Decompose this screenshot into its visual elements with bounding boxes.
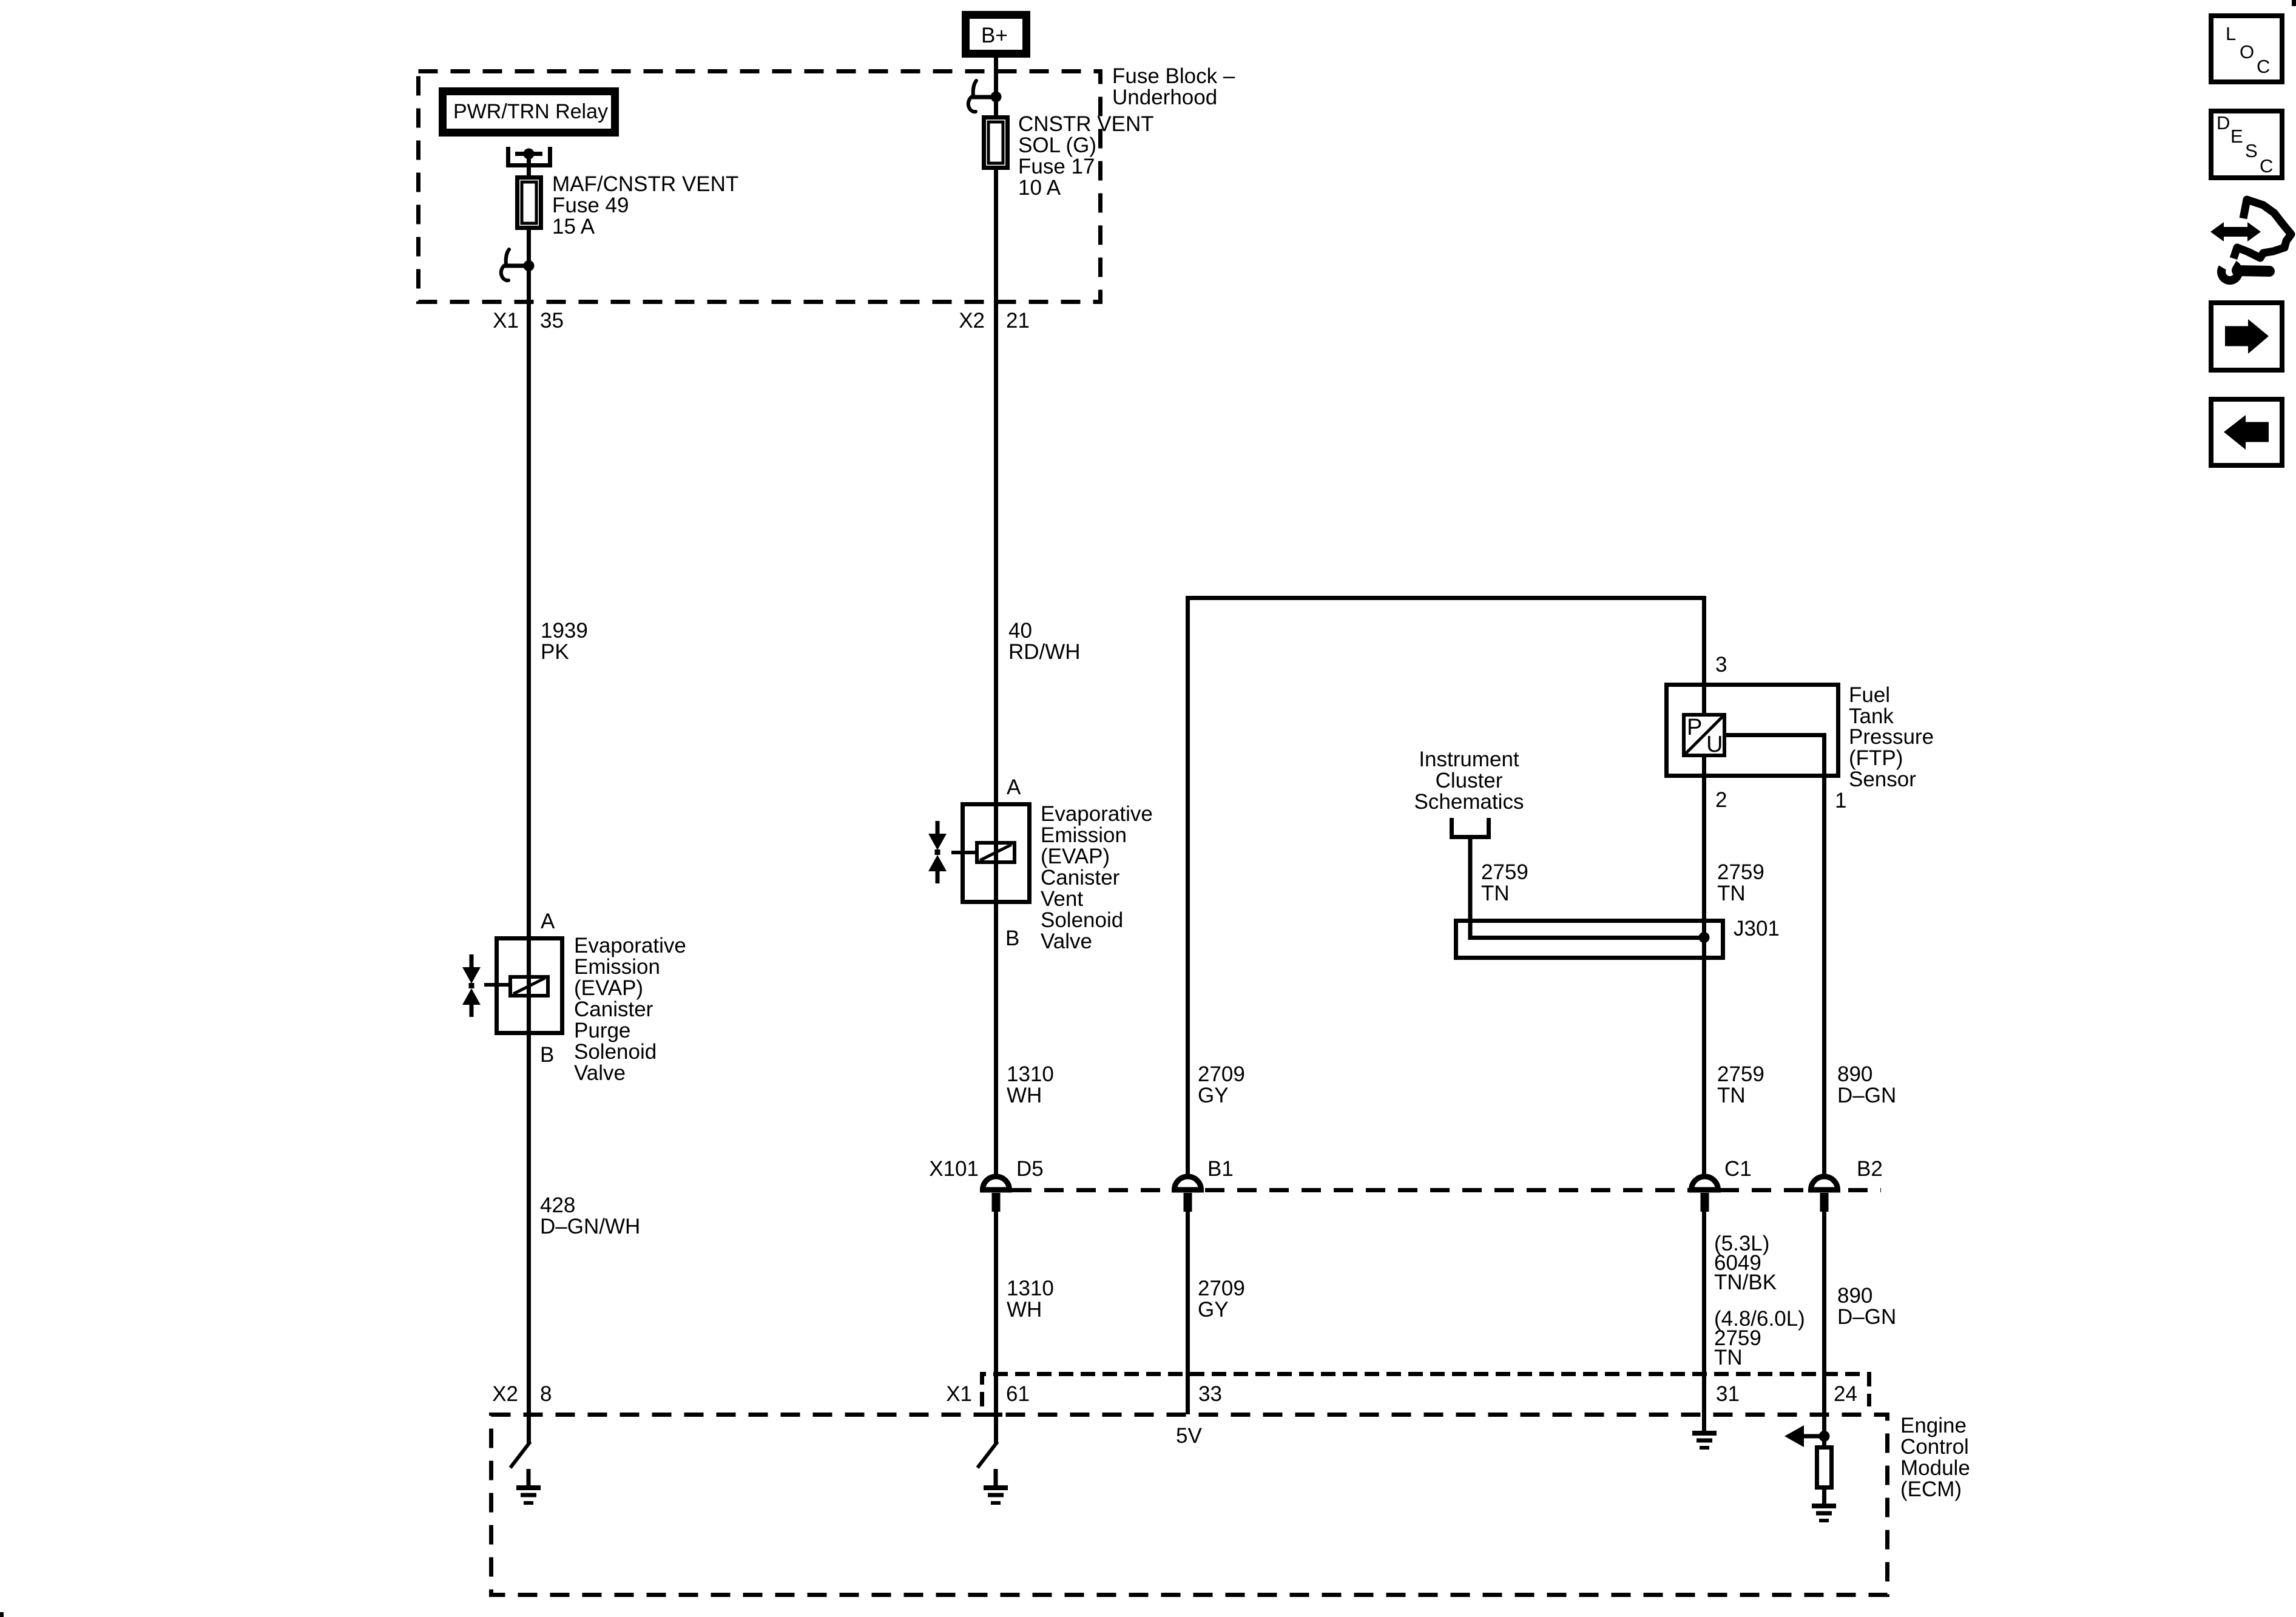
wire 1939 PK (X1-35 to purge solenoid A): [527, 266, 531, 1035]
wire B+ to relay contact (fuse 17 branch): [994, 53, 998, 97]
svg-text:33: 33: [1198, 1382, 1222, 1406]
icon arrow left: [2211, 399, 2282, 465]
wire 428 D-GN/WH: [527, 1033, 531, 1443]
svg-text:(FTP): (FTP): [1849, 746, 1903, 770]
svg-text:U: U: [1706, 732, 1723, 757]
signal arrow (pin 24): [1784, 1425, 1822, 1447]
wire label 890 D-GN (lower): [1837, 1284, 1896, 1329]
solenoid: EVAP canister purge valve: [484, 939, 562, 1033]
connector X1 dotted line (ECM header): [982, 1374, 1869, 1407]
icon LOC: [2211, 16, 2282, 82]
svg-text:B: B: [1005, 927, 1019, 950]
wire label 890 D-GN (upper): [1837, 1062, 1896, 1107]
svg-text:TN/BK: TN/BK: [1714, 1271, 1777, 1294]
svg-text:1: 1: [1835, 789, 1846, 812]
wire 1310 WH upper: [994, 900, 998, 1177]
svg-text:35: 35: [540, 309, 564, 333]
wire 890 D-GN (B2 to ECM 24): [1822, 1212, 1826, 1447]
ECM dashed box: [491, 1415, 1888, 1595]
label: Fuse Block - Underhood: [1112, 64, 1235, 109]
wire label 2709 GY upper: [1198, 1062, 1245, 1107]
valve symbol (purge): [462, 954, 481, 1017]
svg-text:X1: X1: [946, 1382, 972, 1406]
svg-text:Solenoid: Solenoid: [1041, 908, 1123, 932]
wire label (4.8/6.0L) 2759 TN: [1714, 1307, 1805, 1369]
svg-text:Purge: Purge: [574, 1019, 630, 1042]
svg-text:Pressure: Pressure: [1849, 725, 1934, 749]
svg-text:Sensor: Sensor: [1849, 768, 1916, 791]
svg-text:A: A: [1007, 775, 1021, 799]
junction dot J301: [1699, 932, 1710, 943]
connector X101 dashed line: [980, 1188, 1881, 1192]
svg-text:Canister: Canister: [1041, 866, 1120, 890]
svg-text:WH: WH: [1007, 1298, 1042, 1322]
svg-text:Engine: Engine: [1900, 1414, 1967, 1437]
svg-text:428: 428: [540, 1193, 575, 1217]
connector bump B1: [1175, 1157, 1234, 1212]
svg-text:1310: 1310: [1007, 1277, 1054, 1300]
ECM switch (pin 8): [510, 1442, 530, 1468]
connector bump D5: [983, 1157, 1044, 1212]
svg-text:GY: GY: [1198, 1084, 1229, 1107]
label vent solenoid: [1041, 802, 1153, 953]
svg-text:Fuse Block –: Fuse Block –: [1112, 64, 1235, 88]
svg-text:2: 2: [1715, 788, 1727, 812]
svg-text:Emission: Emission: [1041, 823, 1127, 847]
svg-text:Vent: Vent: [1041, 887, 1083, 911]
wire label 2759 TN (cluster): [1481, 860, 1528, 905]
svg-text:24: 24: [1834, 1382, 1857, 1406]
svg-text:2759: 2759: [1717, 860, 1764, 884]
svg-text:(ECM): (ECM): [1900, 1477, 1962, 1501]
wire 1310 WH lower: [994, 1212, 998, 1443]
svg-text:P: P: [1687, 715, 1702, 740]
relay contact bracket (fuse 49 feed): [508, 147, 550, 166]
wire label 2759 TN (right): [1717, 860, 1764, 905]
connector bump C1: [1692, 1157, 1752, 1212]
svg-text:D–GN: D–GN: [1837, 1084, 1896, 1107]
svg-text:TN: TN: [1717, 1084, 1746, 1107]
junction dot relay output: [524, 149, 535, 160]
svg-text:890: 890: [1837, 1062, 1872, 1086]
svg-text:D–GN/WH: D–GN/WH: [540, 1215, 640, 1238]
svg-text:Schematics: Schematics: [1414, 790, 1524, 814]
wire 2759 TN (FTP pin 2 to C1): [1702, 755, 1706, 1177]
svg-text:Cluster: Cluster: [1436, 769, 1503, 792]
svg-text:C: C: [2257, 56, 2270, 77]
junction dot pin 24: [1819, 1431, 1830, 1442]
fuse F49: [518, 178, 541, 228]
svg-text:MAF/CNSTR VENT: MAF/CNSTR VENT: [552, 172, 738, 196]
svg-text:PWR/TRN Relay: PWR/TRN Relay: [453, 100, 608, 123]
switch hook (fuse 17 feed): [968, 81, 976, 112]
svg-text:L: L: [2226, 23, 2236, 44]
label fuse 17: [1018, 112, 1154, 200]
svg-text:31: 31: [1716, 1382, 1740, 1406]
relay PWR/TRN Relay box: [443, 92, 615, 133]
svg-text:WH: WH: [1007, 1084, 1042, 1107]
wire label 2759 TN (upper): [1717, 1062, 1764, 1107]
ECM boundary tick at pin 61: [983, 1413, 1002, 1417]
switch hook (fuse 49 output): [501, 249, 509, 280]
svg-text:2759: 2759: [1717, 1062, 1764, 1086]
ground ECM pin 61: [984, 1469, 1008, 1503]
junction dot fuse 17 feed: [991, 92, 1002, 103]
wire label 1939 PK: [541, 619, 588, 664]
wire label 1310 WH lower: [1007, 1277, 1054, 1322]
svg-text:E: E: [2230, 126, 2243, 147]
svg-text:TN: TN: [1714, 1346, 1743, 1369]
wire label 1310 WH upper: [1007, 1062, 1054, 1107]
svg-text:Valve: Valve: [574, 1061, 626, 1085]
connector bump B2: [1811, 1157, 1883, 1212]
svg-text:X2: X2: [959, 309, 985, 333]
corner speck bottom-left: [0, 1612, 4, 1617]
label fuse 49: [552, 172, 738, 238]
svg-text:SOL (G): SOL (G): [1018, 133, 1096, 157]
svg-text:D5: D5: [1016, 1157, 1044, 1181]
svg-text:8: 8: [540, 1382, 552, 1406]
wire instrument cluster to J301: [1470, 839, 1704, 938]
label FTP sensor: [1849, 683, 1934, 791]
icon DESC: [2211, 111, 2282, 178]
svg-text:TN: TN: [1481, 882, 1510, 905]
svg-text:1310: 1310: [1007, 1062, 1054, 1086]
svg-text:2709: 2709: [1198, 1277, 1245, 1300]
power terminal B+: [966, 15, 1027, 54]
wire 2709 GY riser to FTP pin 3: [1188, 598, 1704, 1178]
svg-text:2759: 2759: [1481, 860, 1528, 884]
svg-text:Fuel: Fuel: [1849, 683, 1890, 707]
svg-text:Solenoid: Solenoid: [574, 1040, 657, 1064]
splice J301: [1456, 917, 1780, 958]
switch tick (fuse 17): [972, 95, 996, 100]
fuse F17: [984, 118, 1008, 168]
svg-text:Fuse 17: Fuse 17: [1018, 155, 1095, 178]
solenoid: EVAP canister vent valve: [951, 805, 1030, 902]
svg-text:3: 3: [1715, 653, 1727, 677]
svg-text:Module: Module: [1900, 1456, 1970, 1480]
svg-text:X1: X1: [493, 309, 519, 333]
fuse block underhood dashed box: [419, 72, 1101, 302]
valve symbol (vent): [928, 821, 947, 883]
svg-text:Canister: Canister: [574, 998, 653, 1021]
svg-text:Emission: Emission: [574, 955, 660, 979]
svg-text:B2: B2: [1857, 1157, 1883, 1181]
ECM switch (pin 61): [977, 1442, 998, 1468]
svg-text:40: 40: [1008, 619, 1032, 643]
svg-text:21: 21: [1006, 309, 1030, 333]
svg-text:B: B: [540, 1043, 554, 1067]
svg-text:10 A: 10 A: [1018, 176, 1061, 200]
svg-text:Valve: Valve: [1041, 930, 1092, 953]
label ECM: [1900, 1414, 1970, 1501]
wire 40 RD/WH (fuse 17 to vent solenoid A): [994, 167, 998, 904]
svg-text:O: O: [2240, 41, 2254, 62]
ground ECM pin 31: [1692, 1433, 1717, 1448]
svg-text:Evaporative: Evaporative: [574, 934, 686, 957]
svg-text:CNSTR VENT: CNSTR VENT: [1018, 112, 1154, 136]
switch tick: [505, 264, 528, 268]
svg-text:S: S: [2245, 140, 2258, 161]
corner speck top-right: [2292, 0, 2296, 6]
svg-text:Underhood: Underhood: [1112, 86, 1217, 109]
ground ECM pin 24: [1812, 1487, 1836, 1521]
svg-text:C: C: [2260, 155, 2273, 177]
svg-text:TN: TN: [1717, 882, 1746, 905]
svg-text:1939: 1939: [541, 619, 588, 643]
wire label 40 RD/WH: [1008, 619, 1081, 664]
wire fuse 49 to switch: [527, 228, 531, 266]
svg-text:X101: X101: [929, 1157, 979, 1181]
wire 6049/2759 (C1 to ECM 31): [1702, 1212, 1706, 1433]
svg-text:(EVAP): (EVAP): [574, 976, 643, 1000]
svg-text:Evaporative: Evaporative: [1041, 802, 1153, 826]
svg-text:X2: X2: [492, 1382, 518, 1406]
wire 890 D-GN (FTP pin 1 to B2): [1724, 735, 1825, 1178]
svg-text:2709: 2709: [1198, 1062, 1245, 1086]
svg-text:C1: C1: [1724, 1157, 1752, 1181]
svg-text:D–GN: D–GN: [1837, 1305, 1896, 1329]
icon diagnostic (arrow, outline, wrench): [2210, 200, 2291, 280]
svg-text:D: D: [2217, 112, 2230, 133]
junction dot switch: [524, 260, 535, 271]
svg-text:5V: 5V: [1176, 1424, 1202, 1448]
instrument cluster off-page reference: [1414, 748, 1524, 837]
sensor FTP box: [1667, 685, 1838, 776]
svg-text:B+: B+: [981, 24, 1008, 47]
svg-text:RD/WH: RD/WH: [1008, 640, 1081, 664]
wire 2709 GY lower: [1186, 1212, 1190, 1414]
svg-text:61: 61: [1006, 1382, 1030, 1406]
wire relay to fuse 49: [527, 154, 531, 177]
svg-text:890: 890: [1837, 1284, 1872, 1308]
svg-text:Fuse 49: Fuse 49: [552, 194, 629, 217]
wire label 428 D-GN/WH: [540, 1193, 640, 1238]
wire label (5.3L) 6049 TN/BK: [1714, 1232, 1777, 1294]
svg-text:B1: B1: [1207, 1157, 1234, 1181]
svg-text:J301: J301: [1734, 917, 1780, 940]
svg-text:GY: GY: [1198, 1298, 1229, 1322]
svg-text:A: A: [541, 910, 555, 933]
svg-text:Control: Control: [1900, 1435, 1969, 1459]
wire tick at relay output: [515, 152, 542, 156]
wire label 2709 GY lower: [1198, 1277, 1245, 1322]
svg-text:Instrument: Instrument: [1419, 748, 1519, 771]
svg-text:15 A: 15 A: [552, 215, 595, 238]
resistor (ECM pull-down): [1817, 1448, 1832, 1488]
svg-text:(EVAP): (EVAP): [1041, 845, 1110, 868]
wire to fuse 17: [994, 96, 998, 118]
ground ECM pin 8: [516, 1469, 541, 1503]
label purge solenoid: [574, 934, 686, 1085]
icon arrow right: [2211, 303, 2282, 370]
svg-text:PK: PK: [541, 640, 569, 664]
